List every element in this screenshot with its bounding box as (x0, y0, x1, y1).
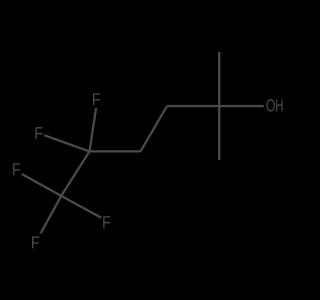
wire bond C4-C5 horizontal (90, 150, 141, 152)
wire bond C6-F4 (61, 196, 101, 218)
node F2 label on C5 (36, 127, 43, 139)
wire bond C3-C2-O main horizontal (167, 105, 264, 107)
node OH label on C2 (267, 99, 275, 111)
wire bond C5-C6 diagonal (61, 151, 89, 196)
wire bond C3-C4 diagonal (141, 106, 168, 151)
node F5 label on C6 (32, 236, 39, 248)
node F4 label on C6 (103, 216, 110, 228)
node OH label H glyph (276, 99, 283, 111)
wire bond C6-F5 (41, 196, 62, 234)
wire bond methyl-up C2 methyl-down vertical (218, 52, 220, 160)
wire bond C6-F3 (22, 174, 61, 196)
node F3 label on C6 (13, 163, 20, 175)
wire bond C5-F2 (44, 135, 89, 151)
node F1 label on C5 (93, 93, 100, 105)
wire bond C5-F1 (90, 108, 97, 151)
